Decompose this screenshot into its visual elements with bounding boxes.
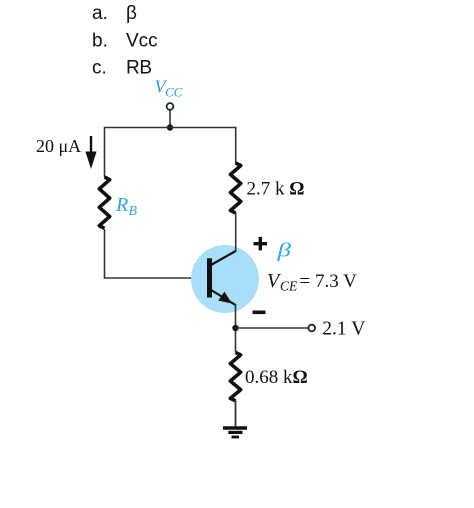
wire left down to RB [104, 127, 106, 177]
svg-text:R: R [115, 194, 128, 216]
svg-text:b.: b. [92, 31, 108, 52]
label RB [115, 194, 138, 219]
svg-text:2.1 V: 2.1 V [322, 319, 365, 340]
svg-text:CE: CE [280, 279, 298, 294]
minus sign [253, 311, 266, 315]
wire to ground [235, 401, 237, 428]
svg-text:β: β [276, 240, 291, 262]
label VCE = 7.3 V [267, 270, 357, 294]
node VCC label [155, 77, 183, 100]
terminal 2.1V [308, 325, 315, 332]
svg-text:0.68 kΩ: 0.68 kΩ [245, 367, 308, 388]
ground [223, 428, 247, 437]
svg-text:c.: c. [92, 58, 107, 79]
svg-text:= 7.3 V: = 7.3 V [300, 271, 358, 292]
terminal VCC [167, 103, 174, 110]
wire right down from rail [235, 127, 237, 164]
svg-text:a.: a. [92, 3, 108, 24]
plus sign [254, 237, 268, 251]
wire to output terminal [236, 327, 309, 329]
wire left below RB [104, 229, 106, 278]
wire emitter down [235, 304, 237, 353]
svg-text:2.7 k Ω: 2.7 k Ω [247, 179, 305, 200]
wire VCC stub [169, 110, 171, 128]
svg-text:Vcc: Vcc [126, 31, 158, 52]
current arrow [85, 136, 96, 169]
svg-text:RB: RB [126, 58, 152, 79]
wire collector [235, 213, 237, 253]
junction emitter [232, 325, 238, 331]
resistor 0.68k [230, 353, 240, 401]
svg-text:B: B [129, 204, 138, 219]
transistor Q1 [207, 251, 236, 305]
wire top rail [105, 127, 237, 129]
wire base rail [104, 277, 208, 279]
resistor RB [99, 177, 109, 228]
svg-text:β: β [126, 3, 137, 24]
svg-text:20 μA: 20 μA [36, 136, 81, 156]
junction VCC [167, 124, 173, 130]
transistor highlight circle [191, 245, 259, 313]
svg-text:CC: CC [165, 84, 183, 99]
resistor 2.7k [230, 163, 240, 213]
